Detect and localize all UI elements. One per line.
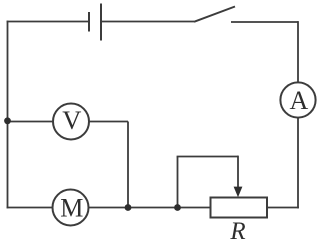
wire voltmeter left lead (left rail junction to voltmeter) — [8, 121, 54, 123]
wire voltmeter branch vertical down to bottom rail — [127, 122, 129, 208]
wire slider tap junction to motor branch junction — [128, 207, 178, 209]
svg-text:R: R — [229, 218, 245, 243]
junction node: slider branch / bottom rail — [174, 204, 181, 211]
wire bottom-right horizontal (corner to rheostat right end) — [267, 207, 299, 209]
ammeter U1 circle — [280, 82, 315, 117]
wire right rail upper (corner to ammeter top) — [297, 21, 299, 82]
motor M1 circle — [53, 190, 89, 226]
junction node: left rail / voltmeter tap — [4, 117, 11, 124]
rheostat wiper arrowhead — [234, 187, 243, 198]
wire left rail vertical — [7, 21, 9, 209]
battery B1 short plate (negative) — [88, 12, 90, 32]
wire right rail lower (ammeter bottom to bottom-right corner) — [297, 118, 299, 209]
wire battery positive to switch pivot — [101, 21, 194, 23]
switch S1 open blade — [194, 7, 235, 22]
wire top-left horizontal (battery negative to left rail) — [7, 21, 89, 23]
svg-text:A: A — [290, 86, 309, 115]
wire slider drop to wiper arrow — [237, 156, 239, 190]
wire bottom-left horizontal (left rail to motor left terminal) — [7, 207, 53, 209]
svg-text:M: M — [60, 193, 83, 222]
wire rheostat left end to slider tap junction — [178, 207, 211, 209]
rheostat R body rectangle — [211, 198, 268, 218]
battery B1 long plate (positive) — [100, 4, 102, 41]
voltmeter U2 circle — [53, 104, 89, 140]
wire switch contact to top-right corner — [231, 21, 298, 23]
wire voltmeter right lead horizontal — [89, 121, 128, 123]
svg-text:V: V — [62, 105, 81, 135]
wire slider riser vertical from junction — [177, 157, 179, 208]
junction node: voltmeter branch / bottom rail — [125, 204, 132, 211]
wire slider horizontal run — [177, 156, 238, 158]
wire motor right terminal to junction — [89, 207, 129, 209]
